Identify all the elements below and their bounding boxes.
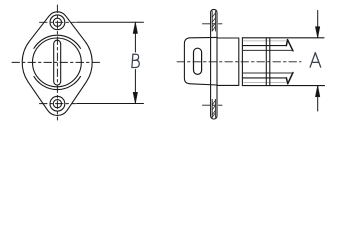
label B bbox=[132, 54, 139, 67]
plate top hole section right line bbox=[214, 11, 216, 31]
plate bottom hole centerline bbox=[203, 104, 223, 106]
top screw hole outer bbox=[50, 15, 65, 30]
plate top hole centerline bbox=[203, 23, 223, 25]
plate top hatch bbox=[212, 13, 215, 31]
flange outline (front view) bbox=[22, 12, 92, 116]
dimension B line upper segment bbox=[134, 22, 136, 52]
top slit line bbox=[244, 40, 286, 42]
centerlines of front view bbox=[12, 5, 102, 120]
snap tube left end wall bbox=[241, 38, 243, 86]
plunger bottom edge bbox=[242, 72, 292, 74]
bottom screw hole outer bbox=[50, 96, 65, 111]
tube wall inner line top bbox=[242, 45, 286, 47]
tube outer edge bottom / A datum bottom bbox=[242, 85, 324, 87]
plate bottom hatch bbox=[212, 100, 215, 117]
side view head slot bbox=[194, 48, 202, 74]
dimension B arrow down bbox=[133, 92, 137, 103]
dimension B extension line top bbox=[77, 21, 144, 23]
dimension B line lower segment bbox=[134, 70, 136, 104]
label A bbox=[310, 53, 321, 68]
bore circle bbox=[33, 38, 82, 87]
mounting plate (side view) bbox=[211, 9, 217, 119]
bottom barb bbox=[286, 73, 293, 84]
plunger top edge bbox=[242, 49, 292, 51]
dimension A line lower segment bbox=[317, 86, 319, 111]
bottom cap arc of bezel bbox=[34, 76, 81, 89]
side view centerlines bbox=[177, 24, 301, 105]
vertical centerline bbox=[56, 5, 58, 120]
main horizontal centerline side view bbox=[177, 61, 301, 63]
top cap arc of bezel bbox=[34, 35, 81, 48]
top hole centerline bbox=[40, 21, 76, 23]
side view head bbox=[184, 37, 217, 85]
collar disc left line bbox=[265, 38, 267, 86]
center slot bbox=[54, 40, 61, 85]
bottom slit line bbox=[244, 82, 286, 84]
dimension B extension line bottom bbox=[77, 103, 144, 105]
dimension B arrow up bbox=[133, 22, 137, 33]
dimension A line upper segment bbox=[317, 11, 319, 38]
top barb bbox=[286, 40, 293, 51]
dimension A arrow down bbox=[316, 27, 320, 38]
plate bottom hole section right line bbox=[214, 99, 216, 117]
boss rectangle behind plate bbox=[217, 38, 239, 85]
horizontal main centerline bbox=[12, 61, 102, 63]
plate bottom hole section left line bbox=[211, 99, 213, 117]
top screw hole inner bbox=[53, 18, 61, 26]
collar disc right line bbox=[269, 38, 271, 86]
tube outer edge top / A datum top bbox=[242, 37, 324, 39]
dimension A arrow up bbox=[316, 86, 320, 97]
bottom screw hole inner bbox=[53, 100, 61, 108]
plate top hole section left line bbox=[211, 11, 213, 31]
bottom hole centerline bbox=[40, 103, 76, 105]
tube wall inner line bottom bbox=[242, 77, 286, 79]
